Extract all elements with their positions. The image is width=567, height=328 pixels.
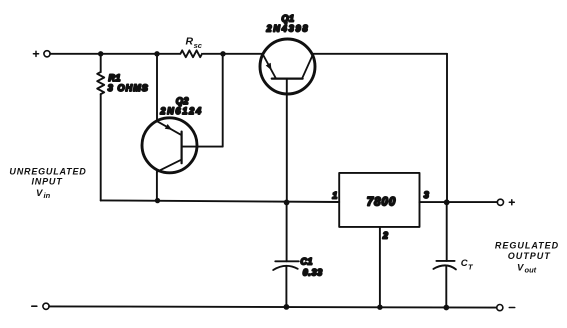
svg-text:0.33: 0.33: [303, 267, 323, 277]
regulator U1 7800: [339, 173, 419, 227]
svg-text:OUTPUT: OUTPUT: [508, 251, 552, 261]
wire node to Q1 emitter: [223, 53, 263, 55]
output - terminal: [497, 305, 503, 311]
svg-text:C: C: [461, 258, 468, 269]
resistor Rsc: [180, 50, 202, 57]
wire R1 bottom lead: [100, 94, 102, 200]
node pin3 / CT junction: [444, 199, 450, 205]
svg-text:in: in: [44, 191, 51, 200]
svg-text:R: R: [186, 35, 194, 47]
svg-text:Q1: Q1: [281, 13, 294, 23]
svg-text:C1: C1: [301, 257, 313, 267]
capacitor CT: [433, 261, 456, 270]
label + (input): [33, 51, 38, 56]
wire top rail left: [50, 53, 180, 55]
svg-text:1: 1: [332, 190, 337, 200]
transistor Q1: [260, 39, 315, 94]
label REGULATED OUTPUT Vout: [495, 241, 559, 275]
svg-text:V: V: [517, 263, 524, 274]
wire Q2 emitter: [156, 54, 158, 121]
wire pin 2 to ground rail: [379, 227, 381, 307]
wire CT top lead: [446, 202, 448, 261]
node Q1 base / C1 junction: [284, 200, 290, 206]
capacitor C1: [273, 261, 299, 270]
wire Q2 base vertical: [182, 54, 223, 147]
node C1 ground junction: [284, 304, 290, 310]
svg-text:2: 2: [382, 231, 388, 241]
wire bottom ground rail: [49, 306, 497, 307]
label UNREGULATED INPUT Vin: [9, 167, 86, 200]
label CT: [461, 258, 474, 272]
svg-text:REGULATED: REGULATED: [495, 241, 559, 251]
svg-text:3 OHMS: 3 OHMS: [108, 83, 149, 93]
wire Q1 collector to right corner: [312, 53, 447, 55]
wire Q2 collector: [156, 172, 158, 201]
label + (output): [509, 200, 514, 205]
wire Q1 base vertical: [286, 79, 288, 203]
input + terminal: [44, 51, 50, 57]
wire Rsc to Q2 base node: [203, 53, 223, 55]
wire C1 bottom lead: [285, 267, 287, 307]
label - (input): [32, 305, 37, 307]
node CT ground junction: [443, 305, 449, 311]
node Q2 collector junction: [155, 198, 160, 203]
transistor Q2: [142, 118, 197, 173]
wire pin 3 to output +: [420, 201, 498, 203]
svg-text:sc: sc: [194, 41, 203, 50]
svg-text:V: V: [36, 188, 43, 199]
wire CT bottom lead: [445, 266, 447, 307]
wire middle rail input to 7800 pin 1: [101, 200, 340, 202]
svg-text:INPUT: INPUT: [32, 176, 64, 186]
svg-text:2N6124: 2N6124: [159, 106, 202, 116]
node Q2 emitter junction: [154, 51, 159, 56]
svg-text:3: 3: [424, 190, 429, 200]
output + terminal: [497, 199, 503, 205]
svg-text:T: T: [468, 262, 474, 271]
svg-text:UNREGULATED: UNREGULATED: [9, 167, 86, 177]
svg-text:2N4398: 2N4398: [266, 24, 310, 34]
svg-text:Q2: Q2: [176, 96, 189, 106]
svg-text:R1: R1: [109, 73, 121, 83]
resistor R1: [97, 72, 104, 94]
node Q2 base junction: [220, 51, 225, 56]
svg-text:out: out: [525, 265, 537, 274]
wire C1 top lead: [286, 202, 288, 261]
input - terminal: [43, 303, 49, 309]
node R1 top junction: [98, 51, 103, 56]
svg-text:7800: 7800: [367, 196, 397, 208]
wire R1 top lead: [100, 54, 102, 72]
node pin2 ground junction: [377, 305, 382, 310]
label - (output): [509, 307, 514, 309]
wire right vertical: [446, 54, 448, 203]
label Rsc: [186, 35, 203, 50]
